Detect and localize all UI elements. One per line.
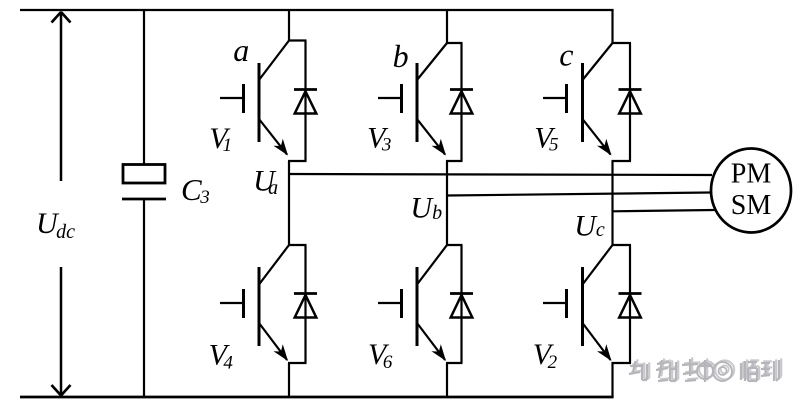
label Udc xyxy=(36,207,75,243)
diode anti-parallel of V4 xyxy=(294,245,317,363)
label a (phase a gate node) xyxy=(233,32,249,68)
diode anti-parallel of V3 xyxy=(450,43,473,161)
label V5 xyxy=(534,122,558,156)
svg-text:PM: PM xyxy=(731,159,772,190)
label c (phase c gate node) xyxy=(559,36,573,72)
wire: V4 top jog to diode branch xyxy=(288,244,307,246)
watermark text xyxy=(629,357,781,382)
wire: phase a output (node Ua to motor) xyxy=(289,174,712,175)
wire: V2 collector stub xyxy=(611,244,613,246)
svg-text:a: a xyxy=(233,32,249,68)
svg-text:SM: SM xyxy=(731,190,772,221)
wire: V4 emitter jog xyxy=(288,362,307,364)
wire: V2 top jog to diode branch xyxy=(612,244,632,246)
wire: bottom DC bus xyxy=(20,396,614,399)
wire: V6 collector stub xyxy=(446,244,448,246)
wire: V2 emitter jog xyxy=(612,362,632,364)
svg-text:Ua: Ua xyxy=(253,165,278,199)
label C3 xyxy=(181,172,210,208)
svg-text:b: b xyxy=(393,38,409,74)
transistor V2 (IGBT) xyxy=(543,245,613,361)
wire: C3 top lead xyxy=(143,10,145,165)
wire: V3 emitter jog xyxy=(446,160,463,162)
wire: V5 emitter jog xyxy=(612,160,632,162)
label node Ua xyxy=(253,165,278,199)
annotation arrow: Udc lower (to bottom bus) xyxy=(52,267,71,396)
transistor V3 (IGBT) xyxy=(378,43,447,156)
wire: V2 emitter to bottom bus xyxy=(611,363,613,397)
label V4 xyxy=(209,339,234,374)
label V1 xyxy=(209,122,232,156)
wire: V3 collector stub xyxy=(446,10,448,43)
wire: phase c mid vertical xyxy=(611,161,613,245)
transistor V1 (IGBT) xyxy=(220,41,289,156)
transistor V4 (IGBT) xyxy=(220,245,289,361)
wire: top DC bus xyxy=(20,9,614,11)
wire: V5 top jog to diode branch xyxy=(612,42,632,44)
label V2 xyxy=(533,338,558,373)
diode anti-parallel of V2 xyxy=(619,245,642,363)
label b (phase b gate node) xyxy=(393,38,409,74)
label node Uc xyxy=(574,209,605,242)
wire: V1 emitter jog xyxy=(288,160,307,162)
label V6 xyxy=(368,338,393,373)
motor M (PM SM) xyxy=(711,149,791,233)
wire: phase b mid vertical xyxy=(446,161,448,245)
svg-text:c: c xyxy=(559,36,573,72)
wire: V6 emitter jog xyxy=(446,362,463,364)
wire: phase a mid vertical xyxy=(288,161,290,245)
label node Ub xyxy=(410,192,442,225)
wire: V4 emitter to bottom bus xyxy=(288,363,290,397)
wire: V3 top jog to diode branch xyxy=(446,42,463,44)
wire: phase c output (node Uc to motor) xyxy=(613,210,715,211)
wire: C3 bottom lead xyxy=(143,199,145,397)
diode anti-parallel of V6 xyxy=(450,245,473,363)
transistor V5 (IGBT) xyxy=(543,43,613,156)
wire: V5 collector stub xyxy=(611,10,613,43)
transistor V6 (IGBT) xyxy=(378,245,447,361)
label V3 xyxy=(367,122,391,156)
wire: V1 top jog to diode branch xyxy=(288,39,307,41)
wire: phase b output (node Ub to motor) xyxy=(447,193,710,196)
wire: V6 emitter to bottom bus xyxy=(446,363,448,397)
wire: V4 collector stub xyxy=(288,244,290,246)
wire: V1 collector stub xyxy=(288,10,290,41)
diode anti-parallel of V1 xyxy=(294,41,317,162)
capacitor C3 xyxy=(122,165,166,200)
diode anti-parallel of V5 xyxy=(619,43,642,161)
annotation arrow: Udc upper (to top bus) xyxy=(52,12,71,182)
wire: V6 top jog to diode branch xyxy=(446,244,463,246)
